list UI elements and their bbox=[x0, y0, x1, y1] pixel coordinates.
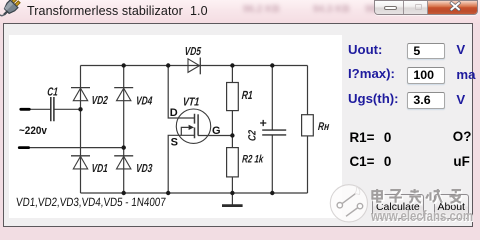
caption button group bbox=[374, 0, 478, 15]
window title bar bbox=[0, 0, 480, 24]
right panel controls bbox=[348, 42, 382, 57]
node VD4 top bbox=[122, 63, 126, 67]
wire RH column bbox=[307, 66, 309, 194]
resistor R2 bbox=[227, 148, 239, 177]
wire input line 1 (terminal to C1) bbox=[29, 108, 50, 110]
svg-text:VD3: VD3 bbox=[136, 163, 153, 176]
app icon: power plug bbox=[0, 0, 24, 24]
wire R2 column bbox=[231, 177, 233, 193]
svg-text:VT1: VT1 bbox=[182, 97, 200, 109]
wire VD3 column bbox=[123, 148, 125, 193]
svg-text:VD1,VD2,VD3,VD4,VD5 - 1N4007: VD1,VD2,VD3,VD4,VD5 - 1N4007 bbox=[16, 196, 167, 209]
svg-text:Rн: Rн bbox=[318, 121, 330, 133]
fake CJK watermark glyphs bbox=[369, 188, 475, 207]
capacitor C2 polarity plus bbox=[260, 120, 266, 126]
svg-text:R1: R1 bbox=[241, 90, 253, 103]
capacitor C2 plates bbox=[262, 130, 286, 135]
wire VT1 drain lead bbox=[168, 66, 194, 119]
diode VD1 bbox=[71, 156, 90, 169]
svg-text:VD4: VD4 bbox=[136, 95, 153, 108]
svg-text:C1: C1 bbox=[47, 86, 59, 99]
node gate/R1/R2 bbox=[230, 133, 234, 137]
node R2 bottom bbox=[230, 191, 234, 195]
diode VD3 bbox=[114, 156, 133, 169]
svg-text:R2 1k: R2 1k bbox=[242, 153, 265, 166]
node VT1 source bottom bbox=[166, 191, 170, 195]
node C2 top bbox=[270, 63, 274, 67]
svg-text:~220v: ~220v bbox=[19, 126, 47, 137]
transistor VT1 body arrow head bbox=[189, 125, 194, 130]
diode VD5 bbox=[188, 58, 200, 75]
wire C2 column bbox=[271, 66, 273, 194]
svg-text:VD1: VD1 bbox=[91, 163, 108, 176]
node C2 bottom bbox=[270, 191, 274, 195]
white schematic panel bbox=[9, 35, 342, 218]
resistor R1 bbox=[227, 83, 239, 111]
diode VD2 bbox=[71, 88, 90, 101]
capacitor C1 plates bbox=[51, 97, 54, 121]
svg-text:S: S bbox=[171, 137, 178, 149]
junction dots bbox=[78, 63, 274, 195]
ground stub bbox=[231, 193, 233, 205]
svg-text:D: D bbox=[170, 107, 178, 119]
node input2/VD4/VD3 bbox=[122, 145, 126, 149]
diode VD4 bbox=[114, 88, 133, 101]
resistor RH bbox=[302, 115, 314, 136]
terminal input 1 bbox=[21, 108, 30, 111]
svg-text:C2: C2 bbox=[246, 129, 258, 141]
svg-text:VD5: VD5 bbox=[184, 46, 201, 59]
node VT1 drain top bbox=[166, 63, 170, 67]
svg-text:VD2: VD2 bbox=[91, 95, 108, 108]
wire VD2 column bbox=[80, 66, 82, 110]
node R1 top bbox=[230, 63, 234, 67]
wire top rail bbox=[81, 65, 308, 67]
wire C1 to VD2/VD1 junction bbox=[54, 108, 80, 110]
watermark bbox=[325, 178, 480, 232]
wire VD1 column bbox=[80, 109, 82, 193]
svg-text:G: G bbox=[212, 125, 221, 137]
wire VD4 column bbox=[123, 66, 125, 148]
buttons bbox=[372, 194, 424, 219]
wire bottom rail bbox=[81, 192, 308, 194]
wire VT1 gate lead bbox=[198, 135, 233, 137]
transistor VT1 (MOSFET) bbox=[176, 109, 210, 143]
wire input line 2 (terminal to VD4/VD3 junction) bbox=[29, 147, 124, 149]
wire VT1 source lead bbox=[168, 135, 194, 193]
node VD3 bottom bbox=[122, 191, 126, 195]
node C1/VD2/VD1 bbox=[78, 107, 82, 111]
ground bar bbox=[222, 204, 243, 207]
wire R1 column bbox=[231, 66, 233, 148]
terminal input 2 bbox=[19, 146, 28, 149]
